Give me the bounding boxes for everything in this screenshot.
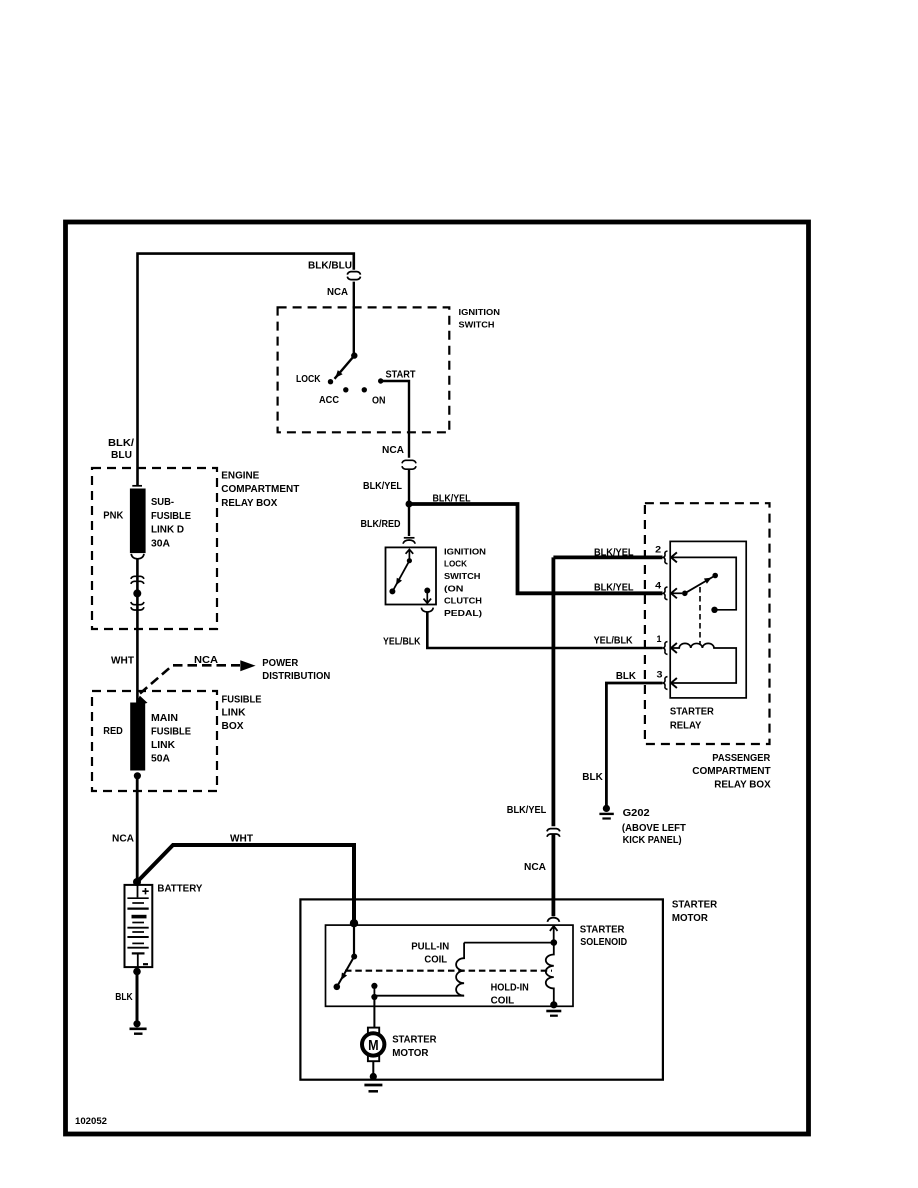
lock switch blade end dot — [389, 588, 395, 594]
svg-text:RED: RED — [103, 725, 123, 737]
svg-text:PASSENGER: PASSENGER — [712, 752, 770, 764]
battery negative junction dot — [133, 968, 141, 976]
svg-text:BLK/YEL: BLK/YEL — [363, 480, 403, 492]
ground at hold-in coil — [550, 1001, 557, 1008]
svg-text:NCA: NCA — [327, 286, 348, 298]
svg-text:STARTER: STARTER — [580, 925, 625, 936]
relay internal: pin 2 to fixed contact — [671, 557, 736, 609]
inline connector pair below fuse — [131, 576, 144, 579]
connector at solenoid input — [547, 918, 559, 922]
svg-text:BLK: BLK — [115, 991, 133, 1003]
svg-text:RELAY BOX: RELAY BOX — [714, 778, 771, 790]
sub-fusible link D 30A fuse body — [132, 485, 142, 487]
svg-text:RELAY BOX: RELAY BOX — [221, 497, 277, 509]
svg-text:BATTERY: BATTERY — [157, 882, 202, 894]
pull-in coil L1 — [456, 943, 464, 996]
svg-text:START: START — [386, 370, 416, 381]
svg-text:KICK PANEL): KICK PANEL) — [623, 834, 682, 846]
svg-text:DISTRIBUTION: DISTRIBUTION — [262, 670, 330, 682]
relay actuator dashed link — [699, 587, 701, 645]
inline connector on solenoid feed — [547, 829, 560, 832]
svg-text:HOLD-IN: HOLD-IN — [491, 983, 529, 994]
page border frame — [66, 222, 809, 1134]
arrowhead at main fusible link junction — [135, 696, 148, 707]
solenoid switch pivot dot — [351, 954, 357, 960]
battery minus sign — [143, 963, 148, 965]
contact to motor stub — [373, 986, 375, 997]
relay internal: pin 4 stub — [671, 592, 682, 594]
svg-text:(ON: (ON — [444, 583, 464, 593]
contact START — [378, 378, 383, 383]
relay pin 3 connector — [663, 677, 677, 690]
arrowhead to POWER DISTRIBUTION — [240, 660, 255, 671]
svg-text:COIL: COIL — [491, 995, 515, 1006]
svg-text:BLK/BLU: BLK/BLU — [308, 259, 352, 271]
solenoid fixed contact dot — [371, 983, 377, 989]
relay fixed contact dot — [711, 607, 717, 613]
starter solenoid box — [326, 925, 574, 1006]
main fusible link bottom dot — [134, 772, 141, 779]
wire BLK/YEL / BLK/RED through node B — [408, 469, 410, 536]
lock switch input arrow — [408, 550, 410, 561]
pull-in coil bottom lead — [374, 995, 464, 997]
svg-text:102052: 102052 — [75, 1116, 107, 1127]
svg-text:PEDAL): PEDAL) — [444, 608, 482, 618]
svg-text:LINK: LINK — [151, 739, 175, 751]
wire BLK/YEL branch from node B to relay pin 4 — [409, 504, 663, 593]
svg-text:4: 4 — [655, 580, 662, 591]
svg-text:FUSIBLE: FUSIBLE — [222, 694, 262, 706]
svg-text:CLUTCH: CLUTCH — [444, 596, 482, 606]
solenoid feed junction dot on box edge — [350, 919, 358, 927]
starter motor M1 brush caps — [368, 1028, 379, 1034]
ignition lock switch box U2 — [386, 547, 437, 604]
svg-text:MAIN: MAIN — [151, 712, 178, 724]
svg-text:WHT: WHT — [230, 833, 254, 845]
svg-text:SWITCH: SWITCH — [444, 571, 481, 581]
solenoid blade end dot — [334, 984, 341, 991]
relay armature pivot dot — [682, 591, 688, 597]
svg-text:MOTOR: MOTOR — [392, 1047, 429, 1059]
wire WHT battery to starter solenoid — [137, 845, 354, 922]
svg-text:3: 3 — [657, 669, 663, 680]
hold-in coil L2 — [546, 943, 554, 1005]
svg-text:BLK: BLK — [616, 670, 636, 682]
svg-text:BLK/YEL: BLK/YEL — [594, 581, 634, 593]
lock switch pivot dot — [407, 558, 412, 563]
ignition switch blade toward LOCK — [335, 356, 355, 379]
contact LOCK — [328, 379, 333, 384]
svg-text:STARTER: STARTER — [670, 706, 714, 718]
svg-text:IGNITION: IGNITION — [459, 307, 501, 317]
svg-text:NCA: NCA — [112, 833, 134, 845]
ground at starter motor — [370, 1073, 377, 1080]
wire BLK battery to ground — [136, 967, 139, 1020]
battery G1 box — [125, 885, 153, 967]
inline connector pair below dot — [131, 602, 144, 605]
svg-text:YEL/BLK: YEL/BLK — [383, 635, 421, 647]
ground G1 (battery) — [133, 1020, 140, 1027]
solenoid input arrow — [550, 926, 558, 943]
svg-text:COMPARTMENT: COMPARTMENT — [221, 483, 300, 495]
svg-text:LINK D: LINK D — [151, 524, 184, 536]
starter relay box K1 — [670, 541, 746, 698]
wire BLK/YEL relay pin 2 down to starter solenoid — [552, 557, 556, 826]
solenoid actuator dashed line — [345, 970, 552, 972]
svg-text:COMPARTMENT: COMPARTMENT — [692, 765, 771, 777]
svg-text:M: M — [368, 1037, 379, 1054]
svg-text:BLK/RED: BLK/RED — [361, 518, 401, 530]
contact ON — [362, 387, 367, 392]
wire to starter motor — [373, 997, 374, 1076]
svg-text:SOLENOID: SOLENOID — [580, 937, 627, 948]
svg-text:BOX: BOX — [222, 720, 244, 732]
dashed NCA branch to power distribution — [140, 665, 240, 693]
svg-text:ON: ON — [372, 396, 386, 407]
svg-text:RELAY: RELAY — [670, 719, 702, 731]
svg-text:(ABOVE LEFT: (ABOVE LEFT — [622, 822, 687, 834]
connector at top of ignition lock switch — [404, 537, 415, 539]
wire NCA into ignition switch — [353, 282, 355, 353]
battery + terminal stub — [137, 885, 139, 898]
relay pin 4 connector — [663, 587, 677, 600]
svg-text:BLK: BLK — [582, 771, 603, 783]
svg-text:G202: G202 — [623, 807, 650, 819]
relay pin 1 connector — [663, 642, 677, 655]
inline connector on starter feed below ignition switch — [402, 460, 416, 463]
wire BLK/YEL pin 2 stub — [553, 556, 662, 560]
svg-text:PNK: PNK — [103, 509, 123, 521]
wire from START contact out of ignition switch — [381, 381, 409, 458]
relay coil pin1 to pin3 — [671, 643, 736, 683]
wire NCA from fusible link to battery — [136, 776, 139, 882]
svg-text:NCA: NCA — [524, 861, 546, 873]
relay armature tip dot — [712, 573, 718, 579]
ignition switch dashed box — [278, 307, 450, 432]
svg-text:BLK/YEL: BLK/YEL — [507, 804, 547, 816]
relay armature blade — [685, 576, 715, 594]
svg-text:POWER: POWER — [262, 657, 298, 669]
svg-text:SUB-: SUB- — [151, 496, 174, 508]
wire YEL/BLK from lock switch to relay pin 1 — [427, 612, 662, 648]
svg-text:BLU: BLU — [111, 449, 132, 461]
hold-in coil top dot — [551, 939, 558, 946]
battery positive junction dot — [133, 878, 141, 886]
wire BLK/BLU from node A up and across to ignition switch connector — [138, 254, 354, 486]
pull-in coil tap dot — [371, 994, 377, 1000]
contact ACC — [343, 387, 348, 392]
svg-text:ENGINE: ENGINE — [221, 469, 259, 481]
lock switch blade — [393, 561, 409, 591]
svg-text:LOCK: LOCK — [296, 374, 321, 385]
svg-text:MOTOR: MOTOR — [672, 912, 708, 924]
svg-text:LOCK: LOCK — [444, 559, 468, 569]
inline connector on BLK/BLU wire above ignition switch — [347, 272, 360, 275]
main fusible link 50A body — [130, 703, 145, 771]
relay pin 2 connector — [663, 551, 677, 564]
battery - terminal stub — [137, 953, 139, 967]
wire WHT from fuse down through connectors — [136, 559, 139, 703]
svg-text:FUSIBLE: FUSIBLE — [151, 510, 191, 522]
ignition switch pivot node — [351, 352, 357, 358]
starter motor M1 body — [362, 1033, 384, 1055]
svg-text:IGNITION: IGNITION — [444, 546, 486, 556]
svg-text:ACC: ACC — [319, 395, 339, 406]
svg-text:STARTER: STARTER — [392, 1033, 437, 1045]
svg-text:50A: 50A — [151, 753, 170, 765]
wire NCA to solenoid — [552, 834, 556, 916]
svg-text:LINK: LINK — [222, 707, 246, 719]
coil top link — [464, 942, 554, 944]
wire BLK pin 3 to ground G202 — [606, 683, 662, 805]
svg-text:NCA: NCA — [194, 654, 218, 666]
lock switch output contact — [424, 588, 430, 594]
battery cell plates — [127, 897, 148, 899]
svg-text:NCA: NCA — [382, 444, 404, 456]
svg-text:FUSIBLE: FUSIBLE — [151, 726, 191, 738]
engine compartment relay box (dashed) — [92, 468, 217, 629]
svg-text:STARTER: STARTER — [672, 899, 718, 911]
svg-text:BLK/: BLK/ — [108, 437, 134, 449]
svg-text:SWITCH: SWITCH — [459, 320, 495, 330]
solenoid switch blade — [337, 957, 354, 987]
svg-text:COIL: COIL — [424, 954, 447, 965]
solenoid switch stem — [353, 923, 355, 956]
connector below ignition lock switch — [421, 608, 433, 612]
ground G202 — [603, 805, 610, 812]
svg-text:1: 1 — [657, 634, 663, 645]
svg-text:WHT: WHT — [111, 655, 135, 667]
battery plus sign — [142, 888, 148, 894]
svg-text:30A: 30A — [151, 537, 170, 549]
junction dot in connector chain — [133, 589, 141, 597]
svg-text:YEL/BLK: YEL/BLK — [594, 634, 633, 646]
svg-text:2: 2 — [655, 545, 661, 556]
fusible link box (dashed) — [92, 691, 217, 791]
starter motor outer box — [300, 899, 663, 1079]
svg-text:PULL-IN: PULL-IN — [411, 941, 449, 952]
node B junction dot — [406, 501, 413, 508]
passenger compartment relay box (dashed) — [645, 503, 770, 744]
